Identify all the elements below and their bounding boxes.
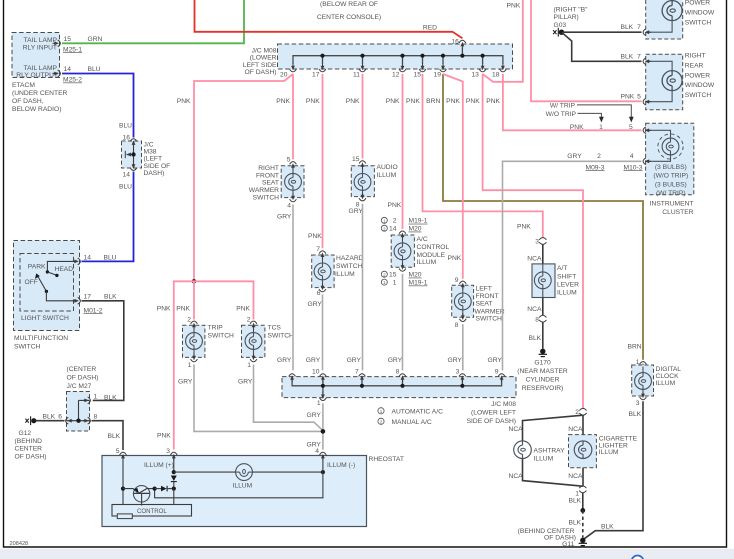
svg-text:3: 3 bbox=[166, 448, 170, 455]
svg-text:19: 19 bbox=[434, 71, 442, 78]
J/C M27 box bbox=[67, 366, 99, 431]
W/O TRIP pointer bbox=[546, 111, 604, 122]
bottom app strip bbox=[0, 549, 734, 559]
svg-text:BLK: BLK bbox=[569, 498, 582, 505]
wire PNK pin 17 to hazard illum pin 7 bbox=[322, 74, 324, 248]
wire GRN vertical to top bbox=[243, 0, 245, 44]
wire GRY left front seat warmer to lower J/C M08 bbox=[462, 324, 464, 370]
svg-text:(UNDER CENTER: (UNDER CENTER bbox=[12, 90, 68, 97]
svg-text:AUTOMATIC A/C: AUTOMATIC A/C bbox=[392, 408, 444, 415]
svg-text:RIGHT: RIGHT bbox=[258, 165, 279, 172]
svg-text:BLU: BLU bbox=[104, 254, 117, 261]
svg-text:7: 7 bbox=[355, 369, 359, 376]
svg-text:SWITCH: SWITCH bbox=[268, 333, 295, 340]
wire GRY right front seat warmer to lower J/C M08 bbox=[292, 205, 294, 371]
A/C module bottom pin bbox=[399, 263, 406, 271]
ground G03 bbox=[553, 7, 588, 37]
ground G170 bbox=[517, 349, 568, 393]
svg-text:2: 2 bbox=[393, 218, 397, 225]
svg-text:SWITCH: SWITCH bbox=[336, 263, 363, 270]
tcs switch pin 2 bbox=[247, 316, 257, 329]
svg-text:PNK: PNK bbox=[157, 305, 171, 312]
svg-text:ILLUM: ILLUM bbox=[417, 259, 437, 266]
svg-text:FRONT: FRONT bbox=[256, 172, 279, 179]
svg-text:RHEOSTAT: RHEOSTAT bbox=[369, 456, 404, 463]
svg-text:M19-1: M19-1 bbox=[409, 280, 428, 287]
svg-text:ILLUM: ILLUM bbox=[557, 289, 577, 296]
hazard illum pin 6 bbox=[308, 283, 326, 308]
svg-text:LIGHT SWITCH: LIGHT SWITCH bbox=[21, 315, 69, 322]
svg-text:15: 15 bbox=[64, 36, 72, 43]
svg-text:3: 3 bbox=[456, 369, 460, 376]
svg-text:(3 BULBS): (3 BULBS) bbox=[655, 181, 687, 188]
svg-text:(LOWER LEFT: (LOWER LEFT bbox=[471, 409, 516, 416]
svg-text:PNK: PNK bbox=[306, 98, 320, 105]
wire GRY lower J/C M08 pin 1 to rheostat pin 4 bbox=[307, 403, 326, 450]
svg-text:14: 14 bbox=[64, 66, 72, 73]
svg-text:PILLAR): PILLAR) bbox=[554, 14, 579, 21]
right front seat warmer pin 5 bbox=[287, 157, 297, 170]
svg-text:(NEAR MASTER: (NEAR MASTER bbox=[517, 368, 568, 375]
svg-text:1: 1 bbox=[188, 362, 192, 369]
svg-text:SWITCH: SWITCH bbox=[14, 344, 41, 351]
svg-text:GRY: GRY bbox=[277, 357, 292, 364]
svg-text:12: 12 bbox=[392, 71, 400, 78]
svg-text:PNK: PNK bbox=[486, 98, 500, 105]
svg-text:SIDE OF DASH): SIDE OF DASH) bbox=[467, 418, 516, 425]
light switch pin 17 bbox=[73, 294, 118, 315]
svg-text:PNK: PNK bbox=[448, 255, 462, 262]
svg-text:BLK: BLK bbox=[104, 294, 117, 301]
wire PNK pin 11 to audio illum pin 15 bbox=[362, 74, 364, 159]
svg-text:SIDE OF: SIDE OF bbox=[144, 163, 171, 170]
svg-text:M19-1: M19-1 bbox=[409, 218, 428, 225]
svg-text:J/C M27: J/C M27 bbox=[67, 383, 92, 390]
PNK 1 5 labels at instrument cluster bbox=[570, 124, 633, 131]
multifunction switch box bbox=[14, 241, 80, 351]
rheostat box bbox=[102, 456, 404, 527]
svg-text:NCA: NCA bbox=[509, 473, 524, 480]
right front seat warmer lamp bbox=[285, 168, 302, 196]
svg-text:BLK: BLK bbox=[108, 433, 121, 440]
power window switch pin 7 bbox=[621, 24, 652, 35]
right front seat warmer pin 4 bbox=[277, 193, 296, 220]
lower J/C M08 pin 1 (bottom) bbox=[317, 392, 326, 407]
control module box bbox=[112, 505, 192, 517]
svg-text:(BELOW REAR OF: (BELOW REAR OF bbox=[320, 1, 378, 8]
svg-text:CIGARETTE: CIGARETTE bbox=[599, 435, 638, 442]
digital clock illum pin 1 bbox=[636, 359, 647, 370]
svg-text:BLU: BLU bbox=[88, 66, 101, 73]
svg-text:GRY: GRY bbox=[238, 378, 253, 385]
svg-text:ILLUM (+): ILLUM (+) bbox=[144, 462, 174, 469]
wire PNK pin 12 to A/C control module illum bbox=[402, 74, 404, 229]
svg-text:7: 7 bbox=[637, 24, 641, 31]
J/C M27 pin 8 bbox=[83, 414, 98, 424]
svg-text:17: 17 bbox=[84, 294, 92, 301]
svg-text:4: 4 bbox=[287, 202, 291, 209]
wire BLK A/T shift to ground G170 bbox=[529, 322, 543, 349]
svg-text:RED: RED bbox=[423, 25, 437, 32]
cigarette lighter pin 1 (inline connector) bbox=[569, 486, 587, 505]
svg-text:RLY INPUT: RLY INPUT bbox=[23, 44, 57, 51]
instrument cluster pin 2/4 (GRY) bbox=[567, 153, 651, 171]
svg-text:LEFT SIDE: LEFT SIDE bbox=[243, 62, 277, 69]
svg-text:G12: G12 bbox=[19, 430, 32, 437]
svg-text:LEVER: LEVER bbox=[557, 281, 579, 288]
wire PNK pin 19 branch to left front seat warmer pin 9 bbox=[443, 74, 463, 279]
svg-text:PNK: PNK bbox=[346, 98, 360, 105]
svg-text:BELOW RADIO): BELOW RADIO) bbox=[12, 106, 61, 113]
svg-text:8: 8 bbox=[535, 316, 539, 323]
audio illum pin 15 bbox=[352, 156, 366, 169]
svg-text:8: 8 bbox=[455, 322, 459, 329]
svg-text:6: 6 bbox=[58, 414, 62, 421]
svg-text:(RIGHT "B": (RIGHT "B" bbox=[554, 7, 589, 14]
svg-text:ILLUM: ILLUM bbox=[233, 482, 253, 489]
left front seat warmer pin 9 bbox=[455, 277, 466, 289]
svg-text:J/C: J/C bbox=[144, 141, 154, 148]
W/ TRIP pointer bbox=[550, 102, 634, 122]
J/C M08 pin 20 bbox=[280, 63, 296, 78]
svg-text:ILLUM: ILLUM bbox=[335, 271, 355, 278]
rheostat ILLUM lamp bbox=[236, 464, 253, 481]
svg-text:TCS: TCS bbox=[268, 325, 282, 332]
svg-text:GRY: GRY bbox=[308, 301, 323, 308]
svg-text:M01-2: M01-2 bbox=[84, 307, 103, 314]
svg-text:GRY: GRY bbox=[307, 412, 322, 419]
svg-text:1: 1 bbox=[317, 400, 321, 407]
svg-text:A/T: A/T bbox=[557, 265, 567, 272]
svg-text:4: 4 bbox=[315, 448, 319, 455]
svg-text:ILLUM: ILLUM bbox=[656, 380, 676, 387]
svg-text:17: 17 bbox=[312, 71, 320, 78]
J/C M08 pin 11 bbox=[353, 63, 366, 78]
svg-text:SEAT: SEAT bbox=[262, 180, 279, 187]
tcs switch pin 1 bbox=[238, 353, 257, 385]
svg-text:GRY: GRY bbox=[388, 357, 403, 364]
header text below rear of center console bbox=[317, 1, 521, 32]
svg-text:BLK: BLK bbox=[629, 411, 642, 418]
hazard illum pin 7 bbox=[316, 246, 326, 259]
svg-text:J/C M08: J/C M08 bbox=[252, 47, 277, 54]
svg-text:14: 14 bbox=[389, 226, 397, 233]
svg-text:CONTROL: CONTROL bbox=[137, 508, 167, 515]
svg-text:(W/O TRIP): (W/O TRIP) bbox=[653, 173, 688, 180]
svg-text:GRY: GRY bbox=[567, 153, 582, 160]
svg-text:BLK: BLK bbox=[601, 523, 614, 530]
svg-text:ILLUM: ILLUM bbox=[534, 455, 554, 462]
svg-text:GRY: GRY bbox=[306, 357, 321, 364]
J/C M27 pin 1 bbox=[83, 393, 118, 403]
A/C module top pin annotations bbox=[381, 217, 427, 232]
svg-text:WARMER: WARMER bbox=[249, 187, 279, 194]
wire RED from top to J/C M08 pin 16 bbox=[195, 0, 463, 38]
svg-text:3: 3 bbox=[636, 400, 640, 407]
junction connector J/C M38 bbox=[122, 141, 171, 177]
svg-text:15: 15 bbox=[352, 156, 360, 163]
svg-text:M20: M20 bbox=[409, 272, 422, 279]
digital clock lamp bbox=[635, 367, 652, 395]
lower J/C M08 bus bar bbox=[292, 378, 502, 394]
svg-text:HAZARD: HAZARD bbox=[336, 255, 364, 262]
svg-text:1: 1 bbox=[94, 393, 98, 400]
svg-text:OF DASH): OF DASH) bbox=[67, 375, 99, 382]
J/C M08 pin 12 bbox=[392, 63, 406, 78]
svg-text:9: 9 bbox=[455, 277, 459, 284]
svg-text:ASHTRAY: ASHTRAY bbox=[534, 447, 566, 454]
wire BLK light switch to J/C M27 pin 1 bbox=[82, 301, 124, 401]
svg-text:OF DASH): OF DASH) bbox=[245, 69, 277, 76]
svg-text:NCA: NCA bbox=[568, 473, 583, 480]
J/C M08 pin 19 bbox=[434, 63, 447, 78]
ETACM pin 14 bbox=[53, 66, 101, 84]
wire color labels below J/C M08 bbox=[177, 98, 501, 105]
audio illum lamp bbox=[354, 168, 371, 195]
svg-text:BLK: BLK bbox=[529, 335, 542, 342]
rheostat pin 3 bbox=[157, 433, 177, 461]
svg-text:MULTIFUNCTION: MULTIFUNCTION bbox=[14, 335, 68, 342]
svg-text:1: 1 bbox=[393, 280, 397, 287]
hazard switch illum box bbox=[308, 233, 364, 288]
ground G12 bbox=[15, 413, 65, 460]
audio illum box bbox=[351, 164, 397, 197]
wire BRN pin 19 to digital clock illum pin 1 bbox=[443, 74, 643, 360]
left front seat warmer switch box bbox=[448, 255, 505, 323]
svg-text:CENTER: CENTER bbox=[15, 446, 43, 453]
wire PNK pin 13 branch to top edge bbox=[483, 0, 523, 82]
instrument cluster pin 1/5 (PNK) bbox=[643, 127, 651, 134]
node: pink distribution junction bbox=[157, 279, 254, 449]
right front seat warmer switch box bbox=[249, 165, 304, 202]
ETACM module box bbox=[12, 33, 68, 113]
J/C M38 pin 16 bbox=[123, 135, 137, 148]
svg-text:DIGITAL: DIGITAL bbox=[656, 366, 682, 373]
J/C M08 pin 16 (top) bbox=[451, 38, 465, 48]
svg-text:4: 4 bbox=[630, 153, 634, 160]
rheostat transistor Q1 bbox=[123, 486, 155, 506]
svg-text:PARK: PARK bbox=[28, 264, 46, 271]
svg-text:GRY: GRY bbox=[488, 357, 503, 364]
trip switch box bbox=[183, 325, 235, 358]
svg-text:SEAT: SEAT bbox=[476, 301, 493, 308]
svg-text:PNK: PNK bbox=[157, 433, 171, 440]
svg-text:8: 8 bbox=[94, 414, 98, 421]
svg-text:SWITCH: SWITCH bbox=[476, 316, 503, 323]
svg-text:(BEHIND: (BEHIND bbox=[15, 438, 43, 445]
svg-text:ILLUM: ILLUM bbox=[377, 172, 397, 179]
lower J/C M08 pin 9 bbox=[495, 369, 505, 383]
svg-text:7: 7 bbox=[637, 53, 641, 60]
wire BLU J/C M38 to light switch pin 14 bbox=[82, 172, 134, 262]
wire GRY audio illum to lower J/C M08 bbox=[362, 204, 364, 371]
svg-text:WARMER: WARMER bbox=[475, 308, 505, 315]
svg-text:(CENTER: (CENTER bbox=[67, 366, 97, 373]
svg-text:1: 1 bbox=[599, 124, 603, 131]
A/T shift lever lamp bbox=[534, 264, 551, 298]
right rear power window switch pin 5 bbox=[621, 94, 652, 105]
svg-text:M20: M20 bbox=[409, 226, 422, 233]
svg-text:RLY OUTPUT: RLY OUTPUT bbox=[16, 72, 58, 79]
wire PNK pin 20 branch to trip/tcs/rheostat node bbox=[194, 74, 293, 281]
svg-text:(LOWER: (LOWER bbox=[250, 55, 277, 62]
svg-text:14: 14 bbox=[123, 172, 131, 179]
svg-text:SWITCH: SWITCH bbox=[685, 92, 712, 99]
svg-text:GRY: GRY bbox=[307, 442, 322, 449]
wire GRY hazard illum to lower J/C M08 bbox=[322, 295, 324, 371]
svg-text:M38: M38 bbox=[144, 149, 157, 156]
svg-text:PNK: PNK bbox=[388, 202, 402, 209]
svg-text:G03: G03 bbox=[554, 22, 567, 29]
svg-text:(3 BULBS): (3 BULBS) bbox=[655, 164, 687, 171]
J/C M38 pin 14 bbox=[123, 162, 137, 179]
svg-text:REAR: REAR bbox=[685, 63, 704, 70]
svg-text:BLU: BLU bbox=[119, 123, 132, 130]
svg-text:GRY: GRY bbox=[178, 378, 193, 385]
trip switch pin 1 bbox=[178, 353, 197, 385]
svg-text:A/C: A/C bbox=[417, 236, 428, 243]
power window switch internal wire bbox=[649, 0, 673, 32]
wire NCA connector to A/T shift box bbox=[542, 245, 544, 265]
cigarette lighter lamp bbox=[574, 441, 592, 459]
wire GRY instrument cluster to lower J/C M08 pin 9 bbox=[503, 161, 642, 370]
svg-text:PNK: PNK bbox=[570, 124, 584, 131]
wire BLK J/C M27 pin 8 to rheostat pin 5 bbox=[92, 421, 124, 450]
ashtray illum lamp bbox=[514, 441, 565, 462]
J/C M08 upper bus bar bbox=[293, 48, 503, 65]
svg-text:GRY: GRY bbox=[347, 357, 362, 364]
ground G11 bbox=[518, 528, 587, 548]
svg-text:W/ TRIP: W/ TRIP bbox=[550, 102, 576, 109]
hazard switch illum lamp bbox=[314, 257, 331, 285]
lower J/C M08 box bbox=[282, 377, 516, 425]
svg-text:9: 9 bbox=[495, 369, 499, 376]
J/C M27 pin 6 bbox=[58, 414, 73, 424]
svg-text:MANUAL A/C: MANUAL A/C bbox=[392, 419, 432, 426]
ETACM pin 15 bbox=[53, 36, 103, 54]
svg-text:BLK: BLK bbox=[621, 24, 634, 31]
cigarette lighter illum pin 2 (inline connector) bbox=[575, 408, 586, 416]
power window switch box (top, cut off) bbox=[646, 0, 715, 39]
svg-text:CONTROL: CONTROL bbox=[417, 244, 450, 251]
svg-text:6: 6 bbox=[317, 290, 321, 297]
A/C control module illum box bbox=[388, 202, 450, 267]
wire GRY trip switch to rheostat node bbox=[194, 365, 321, 432]
J/C M08 pin 17 bbox=[312, 63, 326, 78]
left front seat warmer lamp bbox=[454, 288, 471, 316]
audio illum pin 8 bbox=[349, 193, 366, 216]
lower J/C M08 pin 10 bbox=[312, 369, 326, 383]
NCA wire loop ashtray / cigarette lighter bbox=[509, 415, 584, 486]
svg-text:GRY: GRY bbox=[277, 214, 292, 221]
resistor R1 bbox=[117, 514, 132, 519]
svg-text:5: 5 bbox=[629, 124, 633, 131]
svg-text:BLK: BLK bbox=[569, 519, 582, 526]
tcs switch box bbox=[242, 325, 295, 358]
svg-text:(LEFT: (LEFT bbox=[144, 156, 163, 163]
svg-text:GRN: GRN bbox=[88, 36, 103, 43]
power window switch lamp bbox=[662, 1, 682, 21]
svg-text:NCA: NCA bbox=[527, 255, 542, 262]
svg-text:5: 5 bbox=[637, 94, 641, 101]
trip switch pin 2 bbox=[187, 316, 197, 329]
svg-text:PNK: PNK bbox=[236, 305, 250, 312]
lower J/C M08 pin 8 bbox=[396, 369, 406, 383]
svg-text:OF DASH,: OF DASH, bbox=[12, 98, 44, 105]
svg-text:15: 15 bbox=[414, 71, 422, 78]
trip switch lamp bbox=[186, 328, 203, 356]
svg-text:M10-3: M10-3 bbox=[624, 164, 643, 171]
right rear power window switch pin 7 bbox=[621, 53, 652, 64]
svg-text:DASH): DASH) bbox=[144, 170, 165, 177]
digital clock illum pin 3 bbox=[629, 391, 647, 418]
rheostat diode D2 (right, to ILLUM- return) bbox=[153, 486, 172, 492]
svg-text:CYLINDER: CYLINDER bbox=[526, 377, 560, 384]
right rear power window switch internal wires bbox=[649, 61, 673, 101]
wire PNK pin 15 to A/T shift lever illum bbox=[423, 74, 543, 238]
svg-text:20: 20 bbox=[280, 71, 288, 78]
J/C M08 pin 13 bbox=[471, 63, 486, 78]
lower J/C M08 pin 7 bbox=[355, 369, 365, 383]
A/C module lamp bbox=[394, 237, 411, 265]
svg-text:2: 2 bbox=[187, 316, 191, 323]
svg-text:WINDOW: WINDOW bbox=[685, 10, 715, 17]
svg-text:CENTER CONSOLE): CENTER CONSOLE) bbox=[317, 14, 381, 21]
svg-text:GRY: GRY bbox=[448, 357, 463, 364]
svg-text:BRN: BRN bbox=[426, 98, 440, 105]
svg-text:15: 15 bbox=[389, 272, 397, 279]
svg-text:WINDOW: WINDOW bbox=[685, 82, 715, 89]
svg-text:PNK: PNK bbox=[276, 98, 290, 105]
rheostat interior wiring bbox=[121, 457, 325, 505]
svg-text:PNK: PNK bbox=[386, 98, 400, 105]
svg-text:PNK: PNK bbox=[507, 3, 521, 10]
wire BLK digital clock to ground G11 bbox=[584, 401, 644, 539]
wire PNK from top edge to right rear power window switch pin 5 bbox=[531, 0, 642, 101]
svg-text:GRY: GRY bbox=[349, 208, 364, 215]
svg-text:OFF: OFF bbox=[25, 279, 38, 286]
svg-text:NCA: NCA bbox=[509, 426, 524, 433]
svg-text:M09-3: M09-3 bbox=[586, 164, 605, 171]
svg-text:PNK: PNK bbox=[466, 98, 480, 105]
light switch pin 14 bbox=[73, 254, 92, 265]
bottom help icon (partial) bbox=[632, 556, 644, 559]
svg-text:J/C M08: J/C M08 bbox=[491, 401, 516, 408]
A/C module top pin bbox=[399, 231, 406, 239]
svg-text:PNK: PNK bbox=[446, 98, 460, 105]
svg-text:BLU: BLU bbox=[119, 184, 132, 191]
svg-text:16: 16 bbox=[451, 38, 459, 45]
lower J/C M08 pin 3 bbox=[456, 369, 466, 383]
svg-text:8: 8 bbox=[396, 369, 400, 376]
svg-text:PNK: PNK bbox=[308, 233, 322, 240]
svg-text:2: 2 bbox=[597, 153, 601, 160]
wire PNK pin 20 to right front seat warmer pin 5 bbox=[292, 74, 294, 159]
instrument cluster box bbox=[646, 123, 694, 216]
svg-text:16: 16 bbox=[123, 135, 131, 142]
svg-text:INSTRUMENT: INSTRUMENT bbox=[650, 201, 694, 208]
svg-text:18: 18 bbox=[492, 71, 500, 78]
light switch contacts and lever bbox=[25, 261, 78, 300]
svg-text:PNK: PNK bbox=[406, 98, 420, 105]
svg-text:BLK: BLK bbox=[104, 394, 117, 401]
svg-text:M25-1: M25-1 bbox=[63, 46, 82, 53]
wire BLK G03 to power window switch pin 7 bbox=[563, 31, 642, 33]
svg-text:NCA: NCA bbox=[527, 306, 542, 313]
svg-text:10: 10 bbox=[312, 369, 320, 376]
left front seat warmer pin 8 bbox=[455, 313, 466, 329]
wire PNK pin 13 to cigarette lighter illum pin 2 bbox=[483, 74, 583, 409]
